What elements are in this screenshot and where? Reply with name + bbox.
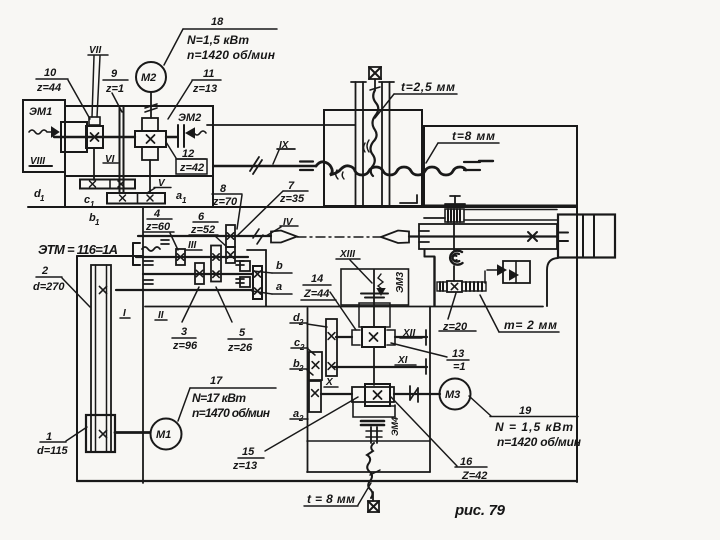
svg-text:z=52: z=52 — [190, 224, 215, 236]
svg-text:7: 7 — [288, 180, 295, 192]
svg-text:14: 14 — [311, 273, 323, 285]
svg-text:d=115: d=115 — [37, 445, 69, 457]
svg-text:1: 1 — [182, 196, 187, 205]
svg-text:z=1: z=1 — [105, 83, 124, 95]
svg-text:10: 10 — [44, 67, 57, 79]
svg-text:N=17 кВт: N=17 кВт — [192, 391, 246, 405]
svg-text:n=1420 об/мин: n=1420 об/мин — [187, 48, 276, 62]
svg-text:z=26: z=26 — [227, 342, 253, 354]
svg-text:Z=44: Z=44 — [303, 288, 329, 300]
svg-text:4: 4 — [153, 208, 160, 220]
svg-text:2: 2 — [298, 318, 304, 327]
svg-text:2: 2 — [299, 343, 305, 352]
svg-text:ЭМ4: ЭМ4 — [390, 417, 400, 436]
svg-text:16: 16 — [460, 456, 473, 468]
svg-text:z=13: z=13 — [232, 460, 257, 472]
svg-text:М3: М3 — [445, 389, 460, 401]
svg-text:ЭМ1: ЭМ1 — [29, 106, 52, 118]
svg-text:X: X — [325, 377, 334, 388]
svg-text:t = 8 мм: t = 8 мм — [307, 492, 355, 506]
svg-text:z=60: z=60 — [145, 221, 171, 233]
svg-text:z=42: z=42 — [179, 162, 204, 174]
svg-text:b: b — [276, 260, 283, 272]
svg-text:d=270: d=270 — [33, 281, 65, 293]
svg-text:m= 2 мм: m= 2 мм — [504, 318, 557, 332]
svg-text:2: 2 — [41, 265, 48, 277]
svg-text:1: 1 — [46, 431, 52, 443]
svg-text:z=96: z=96 — [172, 340, 198, 352]
svg-text:8: 8 — [220, 183, 227, 195]
svg-text:18: 18 — [211, 16, 224, 28]
svg-text:М2: М2 — [141, 72, 156, 84]
svg-text:19: 19 — [519, 405, 532, 417]
svg-text:1: 1 — [95, 218, 100, 227]
svg-text:z=20: z=20 — [442, 321, 468, 333]
svg-text:N = 1,5 кВт: N = 1,5 кВт — [495, 420, 573, 434]
svg-text:1: 1 — [90, 200, 95, 209]
svg-text:13: 13 — [452, 348, 464, 360]
svg-text:n=1470 об/мин: n=1470 об/мин — [192, 406, 271, 420]
svg-text:3: 3 — [181, 326, 187, 338]
svg-text:ЭТМ = 116=1А: ЭТМ = 116=1А — [38, 242, 118, 257]
svg-text:III: III — [188, 240, 197, 251]
svg-text:z=44: z=44 — [36, 82, 61, 94]
svg-text:1: 1 — [40, 194, 45, 203]
svg-text:z=70: z=70 — [212, 196, 238, 208]
svg-text:Z=42: Z=42 — [461, 470, 487, 482]
svg-text:XII: XII — [402, 328, 415, 339]
svg-text:2: 2 — [298, 364, 304, 373]
svg-text:рис. 79: рис. 79 — [454, 502, 506, 519]
svg-text:=1: =1 — [453, 361, 466, 373]
svg-text:I: I — [123, 308, 126, 319]
svg-text:9: 9 — [111, 68, 118, 80]
svg-text:z=13: z=13 — [192, 83, 217, 95]
svg-text:5: 5 — [239, 327, 246, 339]
svg-text:15: 15 — [242, 446, 255, 458]
svg-text:XIII: XIII — [339, 249, 355, 260]
svg-text:N=1,5 кВт: N=1,5 кВт — [187, 33, 249, 47]
svg-text:12: 12 — [182, 148, 194, 160]
svg-text:6: 6 — [198, 211, 205, 223]
svg-text:VII: VII — [89, 45, 101, 56]
svg-text:XI: XI — [397, 355, 408, 366]
svg-text:2: 2 — [298, 414, 304, 423]
svg-text:17: 17 — [210, 375, 223, 387]
svg-text:ЭМ3: ЭМ3 — [395, 271, 406, 293]
svg-text:II: II — [158, 310, 164, 321]
svg-text:11: 11 — [203, 68, 214, 80]
svg-text:a: a — [276, 281, 282, 293]
svg-text:n=1420 об/мин: n=1420 об/мин — [497, 435, 582, 449]
svg-text:IV: IV — [283, 217, 294, 228]
svg-text:ЭМ2: ЭМ2 — [178, 112, 201, 124]
svg-text:t=2,5 мм: t=2,5 мм — [401, 80, 455, 94]
svg-text:М1: М1 — [156, 429, 171, 441]
svg-text:z=35: z=35 — [279, 193, 305, 205]
svg-text:t=8 мм: t=8 мм — [452, 129, 495, 143]
